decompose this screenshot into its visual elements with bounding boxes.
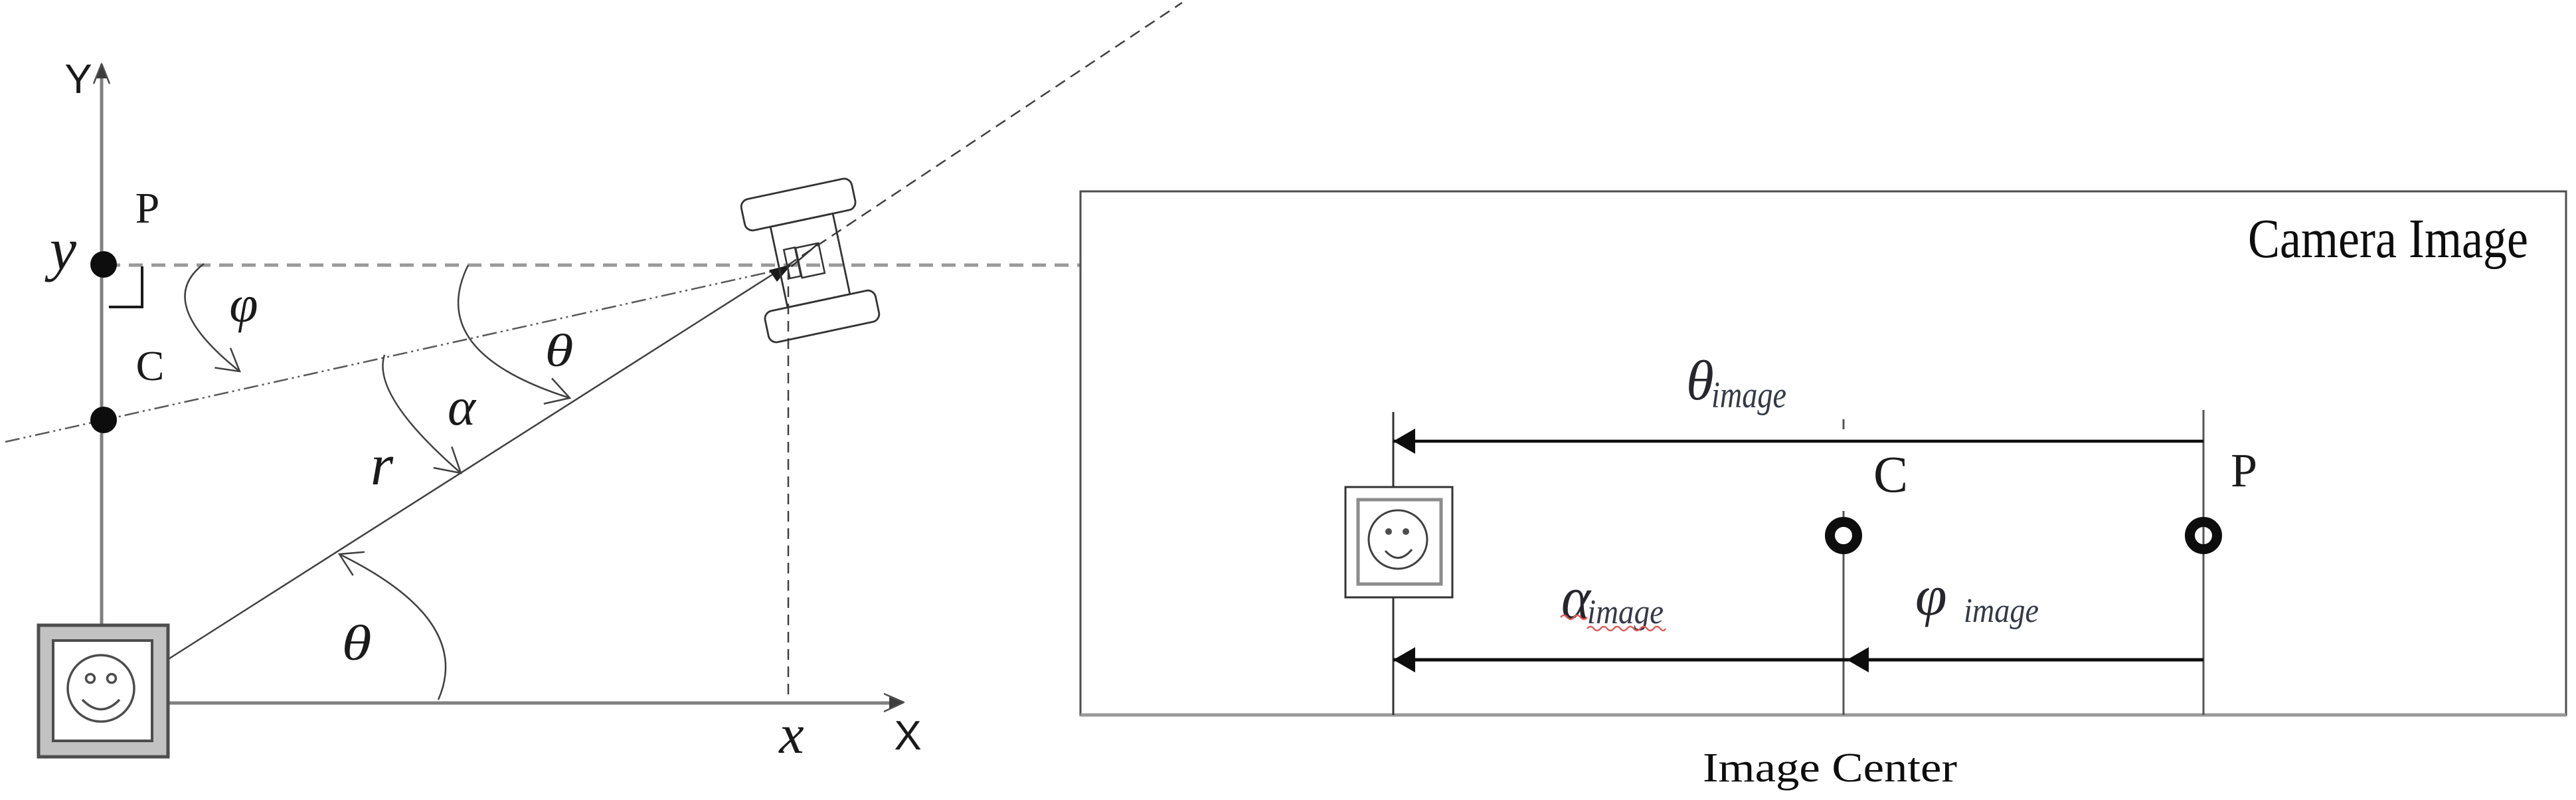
svg-text:α: α [448, 378, 477, 437]
svg-text:C: C [136, 342, 165, 389]
svg-text:image: image [1711, 375, 1786, 416]
svg-text:θ: θ [545, 326, 574, 377]
svg-text:y: y [44, 217, 76, 282]
svg-text:Camera Image: Camera Image [2248, 208, 2528, 270]
svg-text:Image Center: Image Center [1703, 746, 1957, 791]
svg-text:X: X [894, 713, 921, 759]
svg-text:φ: φ [229, 275, 258, 333]
svg-text:φ: φ [1915, 563, 1947, 627]
svg-text:θ: θ [1686, 350, 1714, 412]
svg-text:P: P [135, 184, 160, 233]
svg-text:C: C [1873, 445, 1908, 503]
svg-text:Y: Y [64, 56, 92, 102]
svg-text:P: P [2231, 444, 2257, 497]
svg-text:image: image [1587, 593, 1664, 631]
svg-text:x: x [778, 704, 804, 765]
svg-text:r: r [371, 433, 394, 498]
svg-text:image: image [1964, 592, 2039, 630]
svg-text:θ: θ [342, 616, 372, 671]
